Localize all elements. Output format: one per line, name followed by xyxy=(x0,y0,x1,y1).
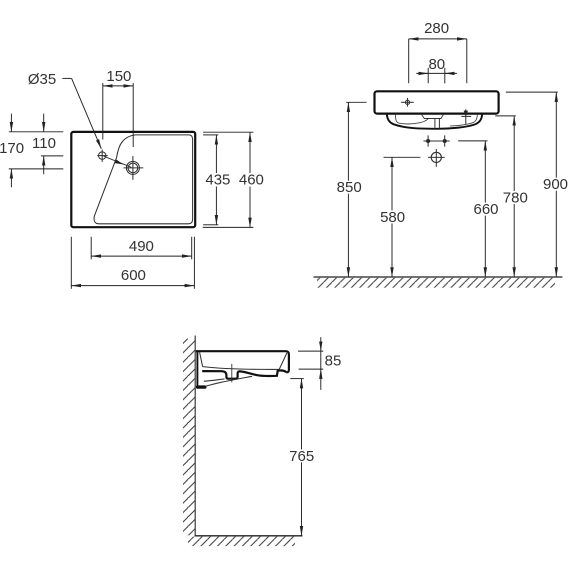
front view: basin body xyxy=(375,91,499,113)
dims 490 / 600 (bottom) xyxy=(90,237,92,259)
dims 435 / 460 (right) xyxy=(203,134,218,136)
svg-text:490: 490 xyxy=(129,238,154,255)
svg-text:780: 780 xyxy=(503,189,528,206)
plan: center hole (drain) concentric circles xyxy=(126,161,139,174)
svg-text:280: 280 xyxy=(424,20,449,37)
dim 280 (top) xyxy=(408,39,410,83)
front view: wall fixing holes xyxy=(423,140,449,142)
plan: faucet hole Ø35 (left) xyxy=(99,152,106,159)
svg-text:765: 765 xyxy=(289,448,314,465)
plan: centerline between holes with mid arrow xyxy=(104,156,132,167)
dim 660 xyxy=(458,140,487,142)
ground line (front view) xyxy=(314,276,563,278)
front view: bowl underside inner lip xyxy=(395,115,428,124)
side view: wall foot xyxy=(196,385,207,388)
dim 150 (hole spacing, top) xyxy=(102,83,104,140)
svg-text:660: 660 xyxy=(473,201,498,218)
svg-text:435: 435 xyxy=(205,172,230,189)
svg-text:600: 600 xyxy=(121,267,146,284)
svg-text:150: 150 xyxy=(106,68,131,85)
front view: bowl underside outer xyxy=(387,114,482,129)
svg-text:110: 110 xyxy=(32,135,56,152)
svg-text:80: 80 xyxy=(428,56,445,73)
svg-text:170: 170 xyxy=(0,140,24,157)
side view: bracket curves xyxy=(205,376,252,386)
ground hatching xyxy=(317,278,555,288)
front view: overflow mark xyxy=(465,109,467,124)
leader Ø35 xyxy=(62,77,71,79)
floor hatching xyxy=(188,537,295,547)
svg-text:580: 580 xyxy=(380,209,405,226)
front view: faucet hole mark xyxy=(405,100,409,104)
dim 780 xyxy=(495,115,516,117)
side view: back edge xyxy=(196,351,198,386)
svg-text:900: 900 xyxy=(543,176,568,193)
svg-text:460: 460 xyxy=(239,172,264,189)
dim 85 xyxy=(298,350,323,352)
dim 900 xyxy=(506,91,558,93)
plan view: basin inner outline xyxy=(94,135,193,224)
side view: basin profile outline xyxy=(196,351,289,372)
side view: drain centerline xyxy=(231,364,233,382)
front view: trap stub xyxy=(434,119,436,129)
dim 850 xyxy=(346,101,366,103)
front view: drain dish xyxy=(422,114,444,118)
front view: drain center mark xyxy=(431,152,441,162)
floor line xyxy=(195,535,303,537)
side view: interior back wall xyxy=(200,352,203,366)
svg-text:85: 85 xyxy=(325,352,342,369)
wall hatching xyxy=(183,339,195,536)
wall line xyxy=(194,336,196,536)
plan view: washbasin outer rim 600x460 xyxy=(71,132,195,227)
dims 110 / 170 (left) xyxy=(9,131,64,133)
side view: interior front wall xyxy=(279,353,287,370)
side view: shell underside with drain channel xyxy=(202,370,286,378)
dim 580 xyxy=(384,156,421,158)
svg-text:Ø35: Ø35 xyxy=(28,71,56,88)
svg-text:850: 850 xyxy=(337,179,362,196)
dim 765 xyxy=(290,378,304,380)
dim 80 xyxy=(427,68,429,84)
side view: interior bottom xyxy=(203,367,280,370)
